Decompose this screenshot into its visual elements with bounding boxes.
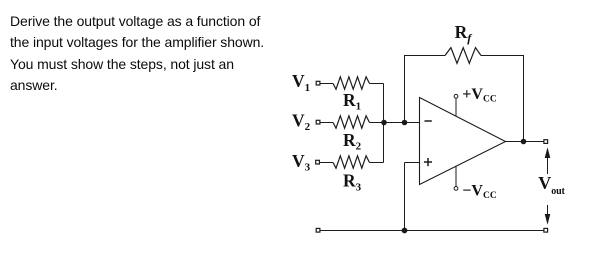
svg-text:R3: R3: [343, 171, 362, 194]
svg-text:V2: V2: [292, 110, 311, 133]
svg-text:Rf: Rf: [455, 22, 473, 45]
svg-text:Vout: Vout: [538, 173, 565, 197]
svg-text:R1: R1: [343, 90, 361, 113]
svg-text:−VCC: −VCC: [462, 183, 497, 202]
svg-text:V3: V3: [292, 151, 311, 174]
svg-text:R2: R2: [343, 130, 362, 153]
svg-text:+VCC: +VCC: [462, 86, 497, 105]
svg-text:V1: V1: [292, 71, 310, 94]
